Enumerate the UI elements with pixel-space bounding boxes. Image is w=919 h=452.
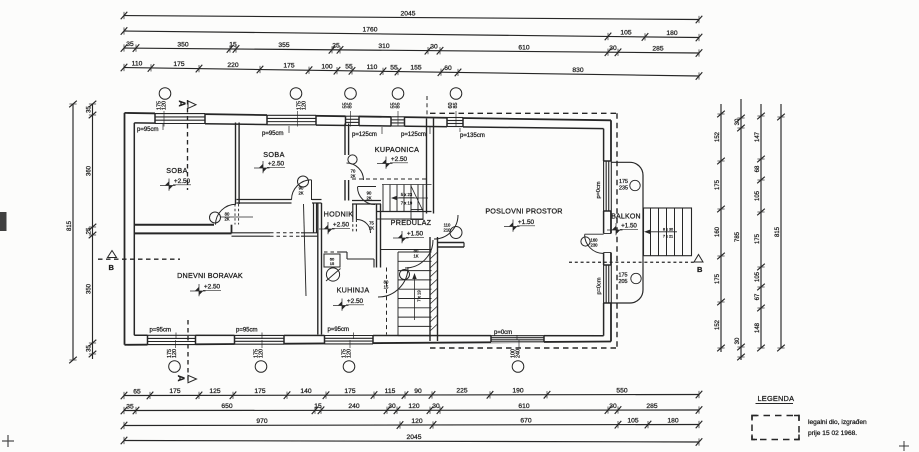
svg-text:120: 120 — [162, 101, 168, 110]
svg-text:30: 30 — [735, 337, 741, 344]
level +2.50 soba 1 — [160, 179, 176, 191]
window RW2 p=0cm (poslovni east) — [602, 265, 612, 303]
svg-text:15: 15 — [229, 42, 237, 49]
svg-text:5 x 23: 5 x 23 — [401, 192, 413, 197]
left dimension column 815 — [67, 101, 77, 364]
bottom dimension row 4 (2045) — [121, 434, 703, 446]
exterior staircase east of balkon — [644, 208, 692, 256]
window mark 175/120 (BW1) — [169, 361, 181, 373]
svg-text:A: A — [176, 375, 186, 382]
bottom dimension row 2 (35..285) — [121, 403, 703, 414]
svg-text:30: 30 — [430, 43, 438, 50]
svg-text:30: 30 — [432, 403, 440, 410]
svg-text:105: 105 — [620, 29, 631, 36]
svg-text:A: A — [177, 100, 187, 107]
window mark 60/85 (W5) — [450, 88, 462, 100]
svg-text:175: 175 — [715, 273, 721, 284]
level +2.50 kupaonica — [377, 157, 393, 169]
svg-text:25: 25 — [86, 227, 92, 234]
corridor north wall near kupaonica — [352, 200, 381, 202]
svg-text:175: 175 — [344, 388, 355, 395]
scan artifact left edge — [0, 212, 7, 231]
svg-text:30: 30 — [609, 403, 617, 410]
door hodnik to predulaz (75/2K) with swing arc — [357, 220, 371, 234]
svg-text:35: 35 — [126, 41, 134, 48]
level +1.50 balkon — [607, 223, 623, 235]
legend dashed rectangle — [752, 416, 799, 440]
svg-text:85: 85 — [396, 103, 402, 109]
svg-text:+2.50: +2.50 — [268, 161, 285, 168]
wall kupaonica east — [426, 119, 428, 214]
wall poslovni west — [429, 237, 431, 341]
window BW3 p=95cm (kuhinja) — [325, 334, 374, 345]
exterior wall bottom outer — [125, 342, 612, 345]
svg-text:175: 175 — [169, 388, 180, 395]
svg-text:85: 85 — [453, 103, 459, 109]
door soba 2 (90/2K) with swing arc — [292, 180, 312, 200]
svg-text:p=95cm: p=95cm — [262, 131, 284, 137]
svg-text:2K: 2K — [366, 196, 371, 201]
svg-text:68: 68 — [755, 165, 761, 172]
svg-text:147: 147 — [755, 131, 761, 142]
svg-text:35: 35 — [86, 345, 92, 352]
door gap poslovni to balkon — [602, 234, 612, 253]
svg-text:285: 285 — [652, 45, 663, 52]
svg-text:+1.50: +1.50 — [407, 231, 424, 238]
svg-text:15: 15 — [384, 285, 389, 290]
svg-text:2K: 2K — [224, 217, 229, 222]
svg-text:175: 175 — [173, 61, 184, 68]
svg-text:+2.50: +2.50 — [333, 222, 350, 229]
section line A-A bottom (dashed) — [187, 320, 189, 383]
dashed legal part boundary bottom — [430, 347, 617, 349]
svg-text:175: 175 — [715, 179, 721, 190]
scan artifact bottom right tick — [899, 445, 909, 447]
open door leaf dashed (soba 1) — [234, 204, 236, 225]
left dimension column 35/360/25/350/35 — [86, 101, 96, 359]
dashed kuhinja east boundary — [386, 268, 388, 335]
level +1.50 predulaz — [393, 231, 409, 243]
svg-text:+2.50: +2.50 — [204, 284, 221, 291]
level +2.50 hodnik — [319, 222, 335, 234]
wall between soba 1 and soba 2 — [235, 123, 237, 205]
svg-text:190: 190 — [512, 388, 523, 395]
svg-text:310: 310 — [378, 43, 389, 50]
right dimension column 815 — [775, 104, 785, 351]
svg-text:105: 105 — [627, 417, 638, 424]
svg-text:180: 180 — [667, 417, 678, 424]
svg-text:155: 155 — [410, 65, 421, 72]
svg-text:p=95cm: p=95cm — [150, 328, 172, 334]
svg-text:67: 67 — [755, 293, 761, 300]
svg-text:35: 35 — [86, 106, 92, 113]
svg-text:550: 550 — [616, 387, 627, 394]
svg-text:legalni dio, izgrađen: legalni dio, izgrađen — [808, 419, 867, 426]
svg-text:100: 100 — [321, 63, 332, 70]
wall hodnik east (with open door dashed) — [352, 204, 354, 220]
top dimension row 3 (35..285) — [121, 41, 703, 57]
svg-text:15: 15 — [314, 403, 322, 410]
svg-text:110: 110 — [132, 60, 143, 67]
svg-text:180: 180 — [666, 30, 677, 37]
exterior wall right inner — [603, 129, 605, 336]
svg-text:LEGENDA: LEGENDA — [758, 394, 795, 403]
svg-text:POSLOVNI PROSTOR: POSLOVNI PROSTOR — [485, 207, 562, 216]
scan artifact bottom left — [2, 440, 14, 442]
svg-text:KUPAONICA: KUPAONICA — [375, 145, 420, 154]
section line B-B right (dotted) — [569, 261, 694, 263]
svg-text:610: 610 — [518, 403, 529, 410]
svg-text:+2.50: +2.50 — [391, 156, 408, 163]
door predulaz to kuhinja swing arc — [378, 267, 408, 297]
svg-text:p=95cm: p=95cm — [328, 327, 350, 333]
wall kupaonica south (dashed) — [352, 178, 427, 180]
svg-text:+1.50: +1.50 — [621, 223, 637, 230]
svg-text:785: 785 — [735, 231, 741, 242]
svg-text:350: 350 — [86, 283, 92, 294]
svg-text:120: 120 — [259, 349, 265, 358]
svg-text:7 x 21: 7 x 21 — [663, 234, 673, 238]
svg-text:35: 35 — [126, 403, 134, 410]
svg-text:55: 55 — [390, 64, 398, 71]
svg-text:p=125cm: p=125cm — [352, 132, 377, 138]
svg-text:p=135cm: p=135cm — [460, 133, 485, 139]
window mark 175/120 (BW3) — [343, 361, 355, 373]
window mark 100/240 (BW4) — [512, 361, 524, 373]
dashed legal part boundary left — [426, 96, 428, 117]
chimney symbol kuhinja — [324, 254, 340, 267]
svg-text:175: 175 — [619, 273, 628, 279]
svg-text:175: 175 — [755, 233, 761, 244]
svg-text:65: 65 — [133, 388, 141, 395]
window mark 175/120 (W2) — [290, 88, 302, 100]
svg-text:55: 55 — [345, 64, 353, 71]
wall stairwell / predulaz west — [376, 204, 378, 268]
svg-text:B: B — [697, 265, 703, 274]
door kupaonica (70/2K) with swing arc — [347, 163, 364, 180]
staircase down (predulaz to poslovni lower level) — [381, 250, 432, 336]
svg-text:90: 90 — [414, 388, 422, 395]
svg-text:815: 815 — [67, 220, 73, 231]
right dimension column 147..148 — [755, 104, 765, 351]
svg-text:670: 670 — [520, 418, 531, 425]
top dimension row 2 (1760/105/180) — [121, 27, 703, 42]
top dimension row 4 (110..830) — [121, 60, 703, 79]
svg-text:2K: 2K — [369, 226, 374, 231]
svg-text:120: 120 — [408, 403, 419, 410]
wall dnevni / kuhinja (vertical) — [317, 203, 319, 335]
svg-text:p=95cm: p=95cm — [137, 127, 159, 133]
window mark 175/120 (BW2) — [255, 361, 267, 373]
svg-text:2K: 2K — [298, 191, 303, 196]
window BW1 p=95cm (dnevni) — [148, 334, 196, 346]
svg-text:160: 160 — [715, 226, 721, 237]
wall below soba 2 (south of door) — [313, 203, 315, 233]
svg-text:225: 225 — [456, 388, 467, 395]
svg-text:+2.50: +2.50 — [347, 298, 364, 305]
svg-text:60: 60 — [444, 65, 452, 72]
svg-text:350: 350 — [177, 41, 188, 48]
svg-text:BALKON: BALKON — [611, 214, 641, 221]
exterior wall bottom inner — [134, 334, 603, 337]
svg-text:1760: 1760 — [363, 27, 378, 34]
svg-text:+1.50: +1.50 — [518, 219, 535, 226]
svg-text:220: 220 — [227, 62, 238, 69]
section line A-A top (dashed) — [187, 100, 189, 190]
level +2.50 soba 2 — [254, 161, 270, 173]
window RW1 p=0cm (poslovni east) — [602, 161, 612, 211]
svg-text:120: 120 — [411, 418, 422, 425]
svg-text:650: 650 — [221, 403, 232, 410]
svg-text:7 x 19: 7 x 19 — [401, 200, 413, 205]
svg-text:230: 230 — [591, 243, 599, 248]
svg-text:152: 152 — [715, 131, 721, 142]
svg-text:30: 30 — [388, 403, 396, 410]
svg-text:120: 120 — [347, 349, 353, 358]
svg-text:p=0cm: p=0cm — [596, 181, 602, 198]
window mark 55/85 (W4) — [392, 88, 404, 100]
window mark 175/120 (W1) — [159, 88, 171, 100]
staircase up (hodnik to predulaz) — [377, 185, 432, 220]
wall soba 1 south (H1) — [135, 224, 214, 226]
exterior wall top outer — [125, 113, 612, 120]
svg-text:152: 152 — [715, 319, 721, 330]
stub wall in poslovni — [438, 242, 465, 244]
wall kupaonica west — [344, 124, 346, 156]
window W1 p=95cm (soba 1) — [155, 112, 205, 125]
svg-text:15: 15 — [330, 261, 335, 266]
window W4 p=125cm (kupaonica) — [391, 116, 405, 128]
svg-text:830: 830 — [572, 67, 583, 74]
svg-text:610: 610 — [518, 44, 529, 51]
svg-text:1K: 1K — [413, 254, 418, 259]
door poslovni to balkon (60/2K) with swing arc — [585, 235, 604, 254]
window mark 55/85 (W3) — [345, 88, 357, 100]
svg-text:815: 815 — [775, 226, 781, 237]
door predulaz south (80/2K) with swing arc — [405, 240, 433, 268]
svg-text:SOBA: SOBA — [166, 166, 188, 175]
bottom dimension row 3 (970..180) — [121, 417, 703, 429]
svg-text:30: 30 — [609, 45, 617, 52]
svg-text:110: 110 — [367, 64, 378, 71]
svg-text:2K: 2K — [350, 174, 355, 179]
svg-text:175: 175 — [254, 388, 265, 395]
svg-text:120: 120 — [302, 101, 308, 110]
svg-text:30: 30 — [735, 118, 741, 125]
door to stairwell (90/2K) with swing arc — [358, 187, 376, 205]
level +1.50 poslovni prostor — [504, 220, 520, 232]
svg-text:p=95cm: p=95cm — [236, 327, 258, 333]
section line B-B left (dashed) — [98, 258, 180, 260]
svg-text:25: 25 — [332, 43, 340, 50]
section marker B right — [694, 255, 703, 263]
window BW4 p=0cm (poslovni) — [491, 334, 544, 343]
svg-text:p=0cm: p=0cm — [597, 277, 603, 294]
window W3 p=125cm (kupaonica) — [346, 115, 360, 127]
svg-text:B: B — [109, 263, 115, 272]
top dimension row 1 (2045) — [121, 10, 703, 23]
right dimension column 30/785/30 — [735, 99, 745, 360]
svg-text:DNEVNI BORAVAK: DNEVNI BORAVAK — [177, 271, 243, 280]
svg-text:8 x 30: 8 x 30 — [663, 227, 673, 231]
svg-text:105: 105 — [755, 190, 761, 201]
kuhinja north boundary (dashed + solid) — [324, 251, 338, 253]
svg-text:120: 120 — [172, 349, 178, 358]
window W5 p=135cm (poslovni) — [447, 116, 463, 128]
svg-text:175: 175 — [619, 179, 628, 185]
svg-text:115: 115 — [385, 388, 396, 395]
svg-text:235: 235 — [619, 186, 628, 192]
svg-text:175: 175 — [283, 63, 294, 70]
wall soba 2 south — [237, 199, 292, 201]
svg-text:2045: 2045 — [407, 434, 422, 441]
svg-text:205: 205 — [619, 279, 628, 285]
svg-text:HODNIK: HODNIK — [324, 210, 354, 219]
svg-text:p=125cm: p=125cm — [401, 132, 426, 138]
svg-text:PREDULAZ: PREDULAZ — [391, 218, 432, 227]
svg-text:KUHINJA: KUHINJA — [337, 286, 370, 295]
boiler circle kuhinja — [326, 268, 339, 281]
svg-text:p=0cm: p=0cm — [494, 330, 512, 336]
svg-text:85: 85 — [348, 103, 354, 109]
right dimension column 152/175/160/175/152 — [715, 104, 725, 352]
svg-text:7 x 19: 7 x 19 — [417, 290, 422, 302]
section marker B left — [108, 251, 117, 258]
window BW2 p=95cm (dnevni) — [235, 334, 285, 345]
svg-text:240: 240 — [516, 349, 522, 358]
bottom dimension row 1 (65..550) — [121, 387, 703, 399]
exterior wall right outer — [610, 120, 612, 341]
door predulaz to poslovni (110/210) with swing arc — [434, 215, 458, 239]
level +2.50 dnevni boravak — [190, 284, 206, 296]
svg-text:285: 285 — [646, 403, 657, 410]
svg-text:355: 355 — [278, 42, 289, 49]
svg-text:210: 210 — [444, 228, 452, 233]
svg-text:240: 240 — [348, 403, 359, 410]
svg-text:prije 15 02 1968.: prije 15 02 1968. — [808, 430, 857, 437]
level +2.50 kuhinja — [333, 299, 349, 311]
corridor south wall (thin, partly dashed) — [232, 232, 271, 234]
wall hatching — [430, 252, 438, 331]
balkon outline — [611, 162, 643, 303]
svg-text:SOBA: SOBA — [263, 150, 285, 159]
dashed legal part boundary top — [430, 112, 617, 114]
wall dnevni north (H2) — [135, 232, 232, 234]
svg-text:105: 105 — [755, 271, 761, 282]
dashed legal part boundary right — [616, 113, 618, 348]
exterior wall top inner — [134, 123, 603, 129]
svg-text:140: 140 — [300, 388, 311, 395]
door soba 1 (80/2K) with swing arc — [216, 204, 237, 224]
svg-text:970: 970 — [256, 418, 267, 425]
svg-text:2045: 2045 — [401, 10, 416, 17]
svg-text:360: 360 — [86, 165, 92, 176]
window W2 p=95cm (soba 2) — [267, 114, 316, 126]
open door leaf kuhinja — [304, 204, 307, 296]
svg-text:148: 148 — [755, 322, 761, 333]
exterior wall left — [124, 113, 126, 345]
svg-text:125: 125 — [209, 388, 220, 395]
